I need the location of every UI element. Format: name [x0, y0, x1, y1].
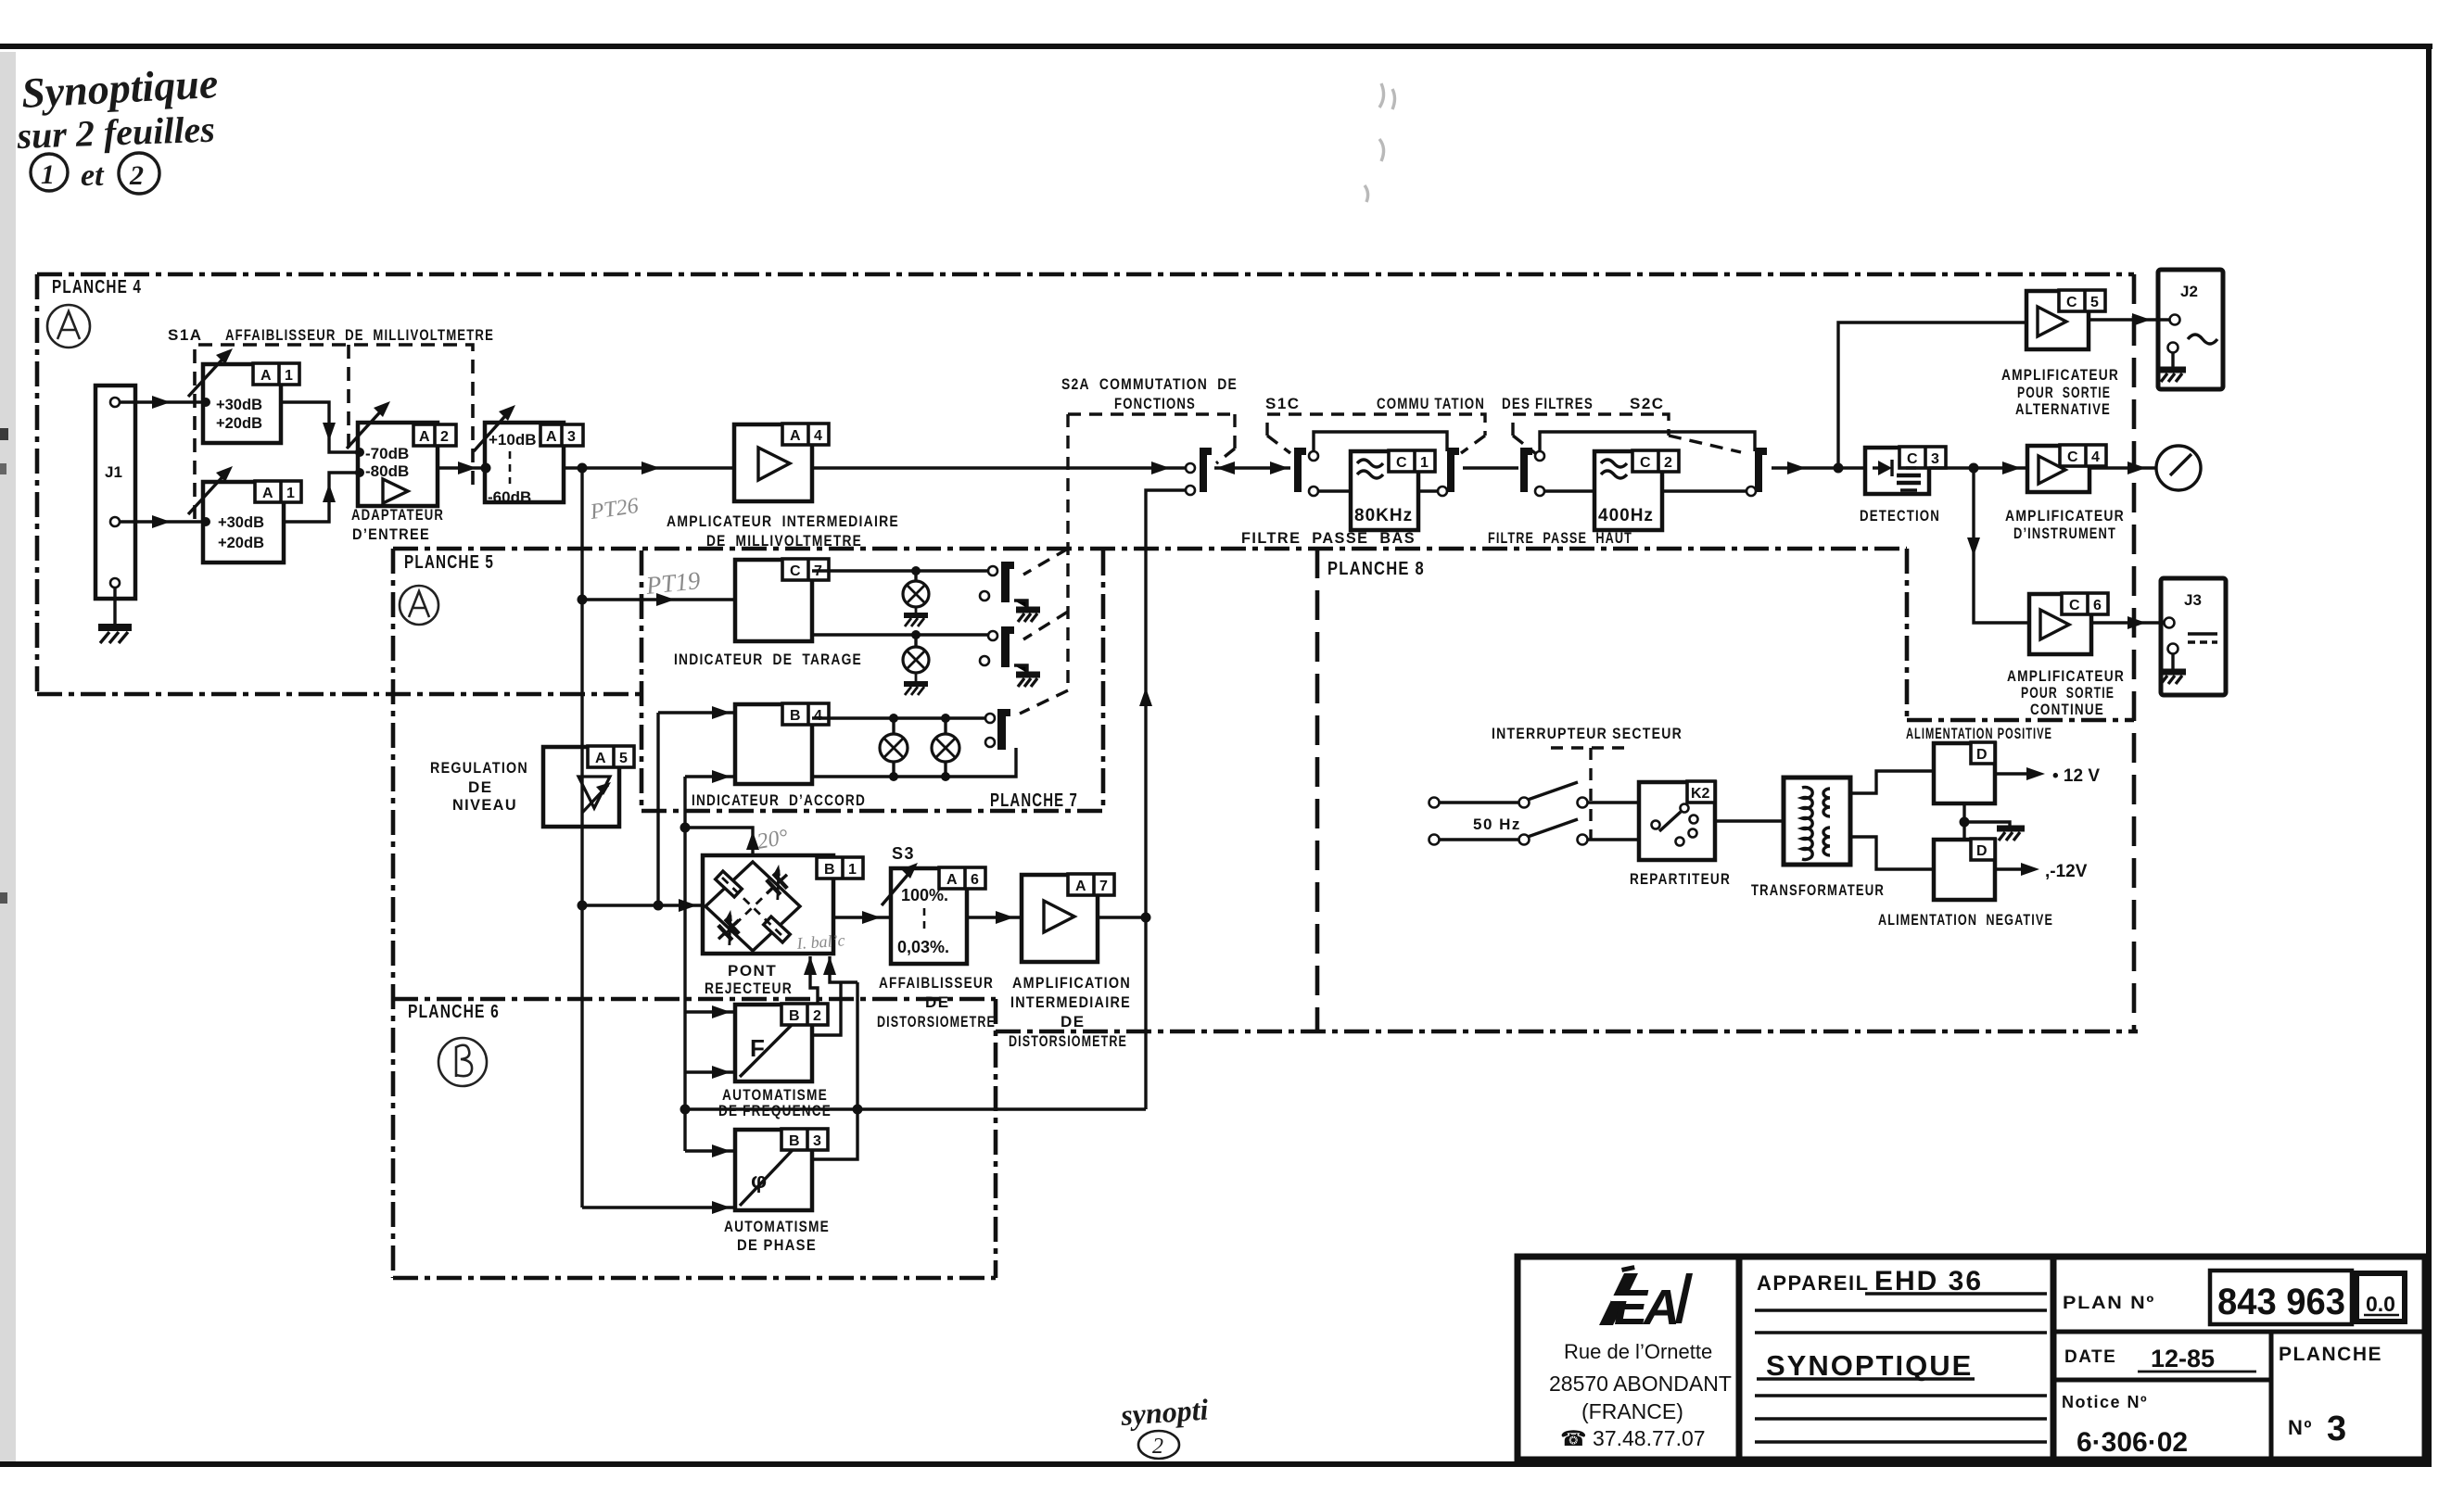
svg-text:+20dB: +20dB [218, 535, 264, 551]
svg-text:• 12 V: • 12 V [2052, 766, 2100, 786]
svg-text:A: A [790, 428, 801, 444]
B1 output wire to A6 [833, 916, 891, 918]
svg-text:100%.: 100%. [901, 886, 948, 904]
distribution bus wire x636 [580, 468, 583, 1208]
svg-text:AMPLIFICATEUR: AMPLIFICATEUR [2005, 507, 2125, 525]
K2 label [1687, 781, 1715, 803]
svg-text:+10dB: +10dB [489, 431, 537, 449]
svg-text:DISTORSIOMETRE: DISTORSIOMETRE [1009, 1032, 1127, 1050]
A6 label [939, 867, 985, 889]
svg-text:+30dB: +30dB [218, 514, 264, 531]
svg-text:28570 ABONDANT: 28570 ABONDANT [1549, 1372, 1732, 1396]
svg-text:C: C [2067, 449, 2078, 465]
S2A dashed frame [1020, 414, 1235, 714]
planche 4 left boundary [35, 274, 40, 694]
wire S2A to S1C (both arrows) [1214, 466, 1290, 469]
B2 F symbol [740, 1009, 807, 1077]
B1 bridge diamond [705, 862, 800, 951]
svg-text:PLAN Nº: PLAN Nº [2063, 1294, 2155, 1313]
svg-text:1: 1 [286, 486, 295, 501]
B4 output wire top [812, 716, 985, 719]
svg-text:S2A COMMUTATION DE: S2A COMMUTATION DE [1061, 375, 1238, 393]
A2 amplifier triangle [383, 479, 408, 503]
svg-text:J2: J2 [2180, 283, 2198, 300]
B4 input wire lower [685, 775, 735, 778]
svg-text:CONTINUE: CONTINUE [2030, 701, 2104, 718]
J2 sine symbol [2188, 335, 2217, 344]
svg-text:+30dB: +30dB [216, 397, 262, 413]
svg-text:+20dB: +20dB [216, 415, 262, 432]
svg-text:3: 3 [813, 1133, 821, 1149]
svg-text:A: A [260, 368, 272, 384]
svg-text:D: D [1976, 843, 1988, 859]
A1 lower label [255, 481, 301, 502]
bottom border line [0, 1461, 2432, 1467]
faint pencil marks top center [1365, 83, 1395, 202]
svg-text:AFFAIBLISSEUR DE MILLIVOLTME: AFFAIBLISSEUR DE MILLIVOLTMETRE [225, 326, 494, 344]
A4 label [782, 424, 829, 445]
planche 5 circled A mark [400, 586, 438, 625]
svg-text:-70dB: -70dB [365, 445, 409, 462]
svg-text:SYNOPTIQUE: SYNOPTIQUE [1766, 1349, 1973, 1382]
svg-text:et: et [81, 158, 105, 193]
svg-text:1: 1 [41, 159, 55, 190]
svg-text:2: 2 [1152, 1435, 1163, 1459]
A2 label [413, 424, 456, 446]
J1 ground [98, 588, 132, 643]
svg-text:☎ 37.48.77.07: ☎ 37.48.77.07 [1560, 1426, 1706, 1450]
svg-text:80KHz: 80KHz [1354, 506, 1413, 525]
svg-text:C: C [1640, 455, 1651, 471]
svg-text:AUTOMATISME: AUTOMATISME [724, 1218, 830, 1235]
instrument amplifier C4 [2027, 446, 2089, 492]
svg-text:AMPLICATEUR INTERMEDIAIRE: AMPLICATEUR INTERMEDIAIRE [667, 512, 899, 530]
C2 wave symbol [1601, 460, 1627, 478]
switch S2C left [1520, 448, 1532, 492]
planche 4 bottom-right boundary y777 [1907, 718, 2134, 723]
wire C4 to meter [2089, 466, 2155, 469]
planche 4 bottom-left boundary [37, 692, 641, 697]
transformer secondary coils [1823, 789, 1830, 855]
svg-text:INTERMEDIAIRE: INTERMEDIAIRE [1010, 993, 1131, 1011]
positive regulator D [1934, 743, 1995, 803]
svg-text:5: 5 [619, 751, 628, 766]
connector J3 [2161, 578, 2226, 695]
planche 6 circled B mark [438, 1038, 487, 1086]
wire A7 to return bus [1098, 916, 1146, 918]
B4 output wire bottom [812, 748, 1016, 777]
smudge mark left edge 2 [0, 892, 7, 904]
switch S2A pole b [988, 566, 997, 575]
svg-text:AMPLIFICATEUR: AMPLIFICATEUR [2007, 667, 2125, 685]
svg-text:S2C: S2C [1630, 395, 1665, 412]
switch b ground [1014, 601, 1040, 622]
connector J2 [2158, 270, 2223, 389]
main wire filters to detection [1772, 466, 1865, 469]
J2 ground [2160, 352, 2186, 382]
title block frame [1518, 1257, 2425, 1460]
svg-text:B: B [789, 1133, 800, 1149]
S1A dashed selector box [195, 345, 473, 519]
svg-text:2: 2 [440, 429, 449, 445]
svg-text:Rue de l’Ornette: Rue de l’Ornette [1564, 1340, 1712, 1363]
attenuator block A6 [891, 868, 967, 964]
appareil rule lines [1755, 1294, 2047, 1333]
automatism feed bus x739 [683, 777, 686, 1151]
wire to C7 [582, 598, 735, 601]
DC output amplifier C6 [2029, 594, 2091, 654]
wire A1 upper to A2 [281, 402, 358, 452]
svg-text:1: 1 [1420, 455, 1429, 471]
svg-text:DATE: DATE [2064, 1347, 2116, 1367]
plan number sub box [2356, 1273, 2405, 1321]
svg-text:EHD 36: EHD 36 [1874, 1266, 1983, 1296]
svg-text:TRANSFORMATEUR: TRANSFORMATEUR [1751, 881, 1885, 899]
right border line [2426, 44, 2432, 1466]
input adapter A2 [358, 423, 438, 506]
svg-text:NIVEAU: NIVEAU [452, 796, 517, 814]
wire transformer to D+ [1850, 771, 1934, 793]
smudge mark left edge 3 [0, 463, 6, 474]
svg-text:3: 3 [1931, 451, 1939, 467]
planche 7 bottom boundary [641, 809, 1103, 814]
svg-text:F: F [750, 1034, 765, 1062]
B3 label [781, 1129, 828, 1150]
node at A1 lower input [201, 517, 210, 526]
frequency return wire y1197 [685, 1107, 1146, 1110]
svg-text:Nº: Nº [2288, 1416, 2313, 1439]
svg-text:1: 1 [848, 862, 857, 878]
svg-text:AMPLIFICATEUR: AMPLIFICATEUR [2001, 366, 2119, 384]
svg-text:6·306·02: 6·306·02 [2077, 1427, 2188, 1458]
svg-text:DISTORSIOMETRE: DISTORSIOMETRE [877, 1013, 996, 1030]
svg-text:ADAPTATEUR: ADAPTATEUR [351, 506, 444, 524]
accord lamp 2 [944, 718, 946, 777]
C3 diode [1873, 466, 1878, 469]
svg-text:REGULATION: REGULATION [430, 759, 528, 777]
J3 ground [2160, 653, 2186, 684]
B3 input wires [685, 1149, 735, 1152]
A3 variability arrow [474, 409, 512, 451]
svg-text:POUR SORTIE: POUR SORTIE [2021, 684, 2115, 702]
svg-text:ALIMENTATION POSITIVE: ALIMENTATION POSITIVE [1906, 725, 2052, 742]
svg-text:PONT: PONT [728, 962, 777, 980]
svg-text:B: B [824, 862, 835, 878]
title block inner dividers [2053, 1332, 2425, 1460]
planche 6 top boundary [393, 997, 996, 1002]
svg-text:J1: J1 [105, 463, 122, 481]
svg-text:4: 4 [814, 428, 822, 444]
svg-text:D’INSTRUMENT: D’INSTRUMENT [2013, 525, 2116, 542]
planche 4 bottom notch vertical at x2057 [1905, 549, 1910, 720]
J3 DC symbol [2188, 632, 2217, 635]
attenuator A1 (lower) [203, 482, 284, 563]
lamp 1 ground [904, 607, 928, 626]
A4 amplifier triangle [758, 448, 790, 480]
wire A2 to A3 [438, 466, 485, 469]
planche 7 left boundary [640, 550, 644, 811]
bridge resistor top-left [716, 871, 743, 897]
C1 wave symbol [1357, 460, 1383, 478]
switch c ground [1014, 665, 1040, 687]
wire C3 to C4 [1929, 466, 2027, 469]
planche 5 and 6 left boundary [391, 549, 396, 1278]
node at C7 branch [578, 595, 588, 605]
attenuator A1 (upper) [203, 364, 281, 443]
svg-text:COMMU TATION: COMMU TATION [1377, 395, 1485, 412]
distorsiometre return wire up to S2A [1146, 490, 1186, 1109]
J1 pin 1 [110, 398, 120, 407]
svg-text:A: A [595, 751, 606, 766]
wire K2 to transformer [1715, 819, 1784, 822]
automatism output bus x925 [812, 982, 857, 1159]
svg-text:ALTERNATIVE: ALTERNATIVE [2015, 400, 2111, 418]
svg-text:POUR SORTIE: POUR SORTIE [2017, 384, 2111, 401]
top border line [0, 44, 2432, 49]
wire A1 lower to A2 [284, 473, 358, 522]
svg-text:PLANCHE 5: PLANCHE 5 [404, 552, 494, 573]
svg-text:7: 7 [1099, 879, 1108, 894]
svg-text:B: B [789, 1008, 800, 1024]
svg-text:DE MILLIVOLTMETRE: DE MILLIVOLTMETRE [706, 532, 862, 550]
svg-text:C: C [790, 563, 801, 579]
svg-text:A: A [546, 429, 557, 445]
B2 label [781, 1004, 828, 1025]
C7 label [782, 559, 829, 580]
C7 output wire 2 [812, 633, 988, 636]
svg-text:I. bal’c: I. bal’c [795, 930, 845, 953]
mains switch pole 1 [1440, 801, 1518, 803]
svg-text:4: 4 [2091, 449, 2100, 465]
wire C5 to J2 [2089, 318, 2170, 321]
svg-text:REJECTEUR: REJECTEUR [705, 980, 793, 997]
wire between filter pairs [1463, 466, 1518, 469]
B1 bottom control arrows [810, 956, 818, 1005]
svg-text:AFFAIBLISSEUR: AFFAIBLISSEUR [879, 974, 994, 992]
wire J1 pin2 to A1 [120, 520, 203, 523]
svg-text:APPAREIL :: APPAREIL : [1757, 1271, 1885, 1295]
400Hz bypass wire [1540, 432, 1755, 451]
svg-text:φ: φ [751, 1169, 767, 1194]
accord lamp 1 [892, 718, 895, 777]
wire transformer to D- [1850, 837, 1934, 869]
node at A2 input upper [355, 448, 364, 457]
svg-text:K2: K2 [1691, 786, 1710, 802]
svg-text:,-12V: ,-12V [2045, 862, 2088, 881]
svg-text:DE: DE [925, 993, 950, 1011]
A5 label [588, 746, 634, 767]
svg-text:INDICATEUR DE TARAGE: INDICATEUR DE TARAGE [674, 651, 862, 668]
svg-text:0,03%.: 0,03%. [897, 938, 949, 956]
B4 label [782, 703, 829, 725]
bridge dashed diagonals [722, 878, 783, 937]
svg-text:FILTRE PASSE BAS: FILTRE PASSE BAS [1241, 529, 1416, 547]
link between regulators with ground [1962, 803, 1965, 840]
svg-text:D’ENTREE: D’ENTREE [352, 525, 430, 543]
svg-text:PLANCHE: PLANCHE [2279, 1344, 2382, 1365]
svg-text:400Hz: 400Hz [1598, 506, 1654, 525]
svg-text:5: 5 [2090, 295, 2099, 310]
A7 label [1068, 874, 1114, 895]
C7 output wire 1 [812, 569, 988, 572]
planche 6 bottom boundary [393, 1276, 996, 1281]
regulation block A5 [543, 747, 619, 827]
svg-text:DES FILTRES: DES FILTRES [1502, 395, 1594, 412]
svg-text:S1C: S1C [1265, 395, 1301, 412]
svg-text:2: 2 [1664, 455, 1672, 471]
svg-text:PLANCHE 7: PLANCHE 7 [990, 790, 1078, 811]
svg-text:S3: S3 [892, 844, 915, 863]
S1C dashed frame [1267, 414, 1485, 453]
frequency automatism B2 [735, 1005, 812, 1081]
A2 variability arrow [347, 405, 387, 449]
svg-text:3: 3 [2327, 1410, 2346, 1448]
distributor block K2 [1639, 782, 1715, 860]
B2 input wires [685, 1010, 735, 1013]
svg-text:D: D [1976, 747, 1988, 763]
lamp 2 [914, 635, 917, 647]
connector J1 [95, 386, 135, 599]
J1 pin 2 [110, 517, 120, 526]
branch down to C6 [1974, 468, 2029, 623]
lamp 1 [914, 571, 917, 581]
switch S1C right [1447, 448, 1459, 492]
handwritten note: 1 et 2 circled [31, 153, 159, 194]
wire A6 to A7 [967, 916, 1022, 918]
detection block C3 [1865, 448, 1929, 494]
svg-text:PT19: PT19 [643, 566, 702, 600]
B1 label [817, 857, 863, 879]
svg-text:6: 6 [2093, 598, 2102, 613]
indicator block C7 [735, 560, 812, 641]
B4 input vertical x710 [656, 713, 659, 905]
svg-text:PLANCHE 8: PLANCHE 8 [1327, 559, 1425, 579]
svg-text:A: A [262, 486, 273, 501]
svg-text:ALIMENTATION NEGATIVE: ALIMENTATION NEGATIVE [1878, 911, 2053, 929]
svg-text:6: 6 [971, 872, 979, 888]
svg-text:FONCTIONS: FONCTIONS [1114, 395, 1196, 412]
phase automatism B3 [735, 1130, 812, 1210]
svg-text:REPARTITEUR: REPARTITEUR [1630, 870, 1731, 888]
svg-text:PLANCHE 4: PLANCHE 4 [52, 277, 142, 297]
bridge capacitor bottom-left [709, 910, 747, 948]
transformer block [1784, 778, 1850, 865]
J1 pin 3 [110, 578, 120, 588]
svg-text:(FRANCE): (FRANCE) [1581, 1399, 1683, 1423]
S3 variability arrow [882, 867, 914, 905]
left scanner grey strip [0, 52, 16, 1461]
mains switch pole 2 [1440, 838, 1518, 841]
node at B1 branch [578, 901, 588, 911]
meter [2156, 446, 2201, 490]
bridge capacitor top-right [757, 865, 795, 903]
mains switch link dashed [1551, 748, 1632, 840]
svg-text:DE PHASE: DE PHASE [737, 1236, 817, 1254]
intermediate amplifier A4 [734, 424, 812, 501]
switch S1C left [1294, 448, 1306, 492]
A3 label [540, 424, 583, 446]
S2A main switch [1186, 463, 1195, 473]
planche 7 right boundary [1101, 550, 1106, 811]
planche 5 / planche 8 top long boundary [393, 547, 1907, 551]
svg-text:DE: DE [1061, 1013, 1086, 1030]
A1 lower variability arrow [188, 470, 229, 514]
svg-text:C: C [2066, 295, 2077, 310]
switch S2C right [1755, 448, 1767, 492]
svg-text:4: 4 [814, 708, 822, 724]
svg-text:3: 3 [567, 429, 576, 445]
svg-text:C: C [1396, 455, 1407, 471]
svg-text:DE: DE [468, 778, 493, 796]
switch S2A pole d [985, 714, 995, 723]
svg-text:B: B [790, 708, 801, 724]
svg-text:INTERRUPTEUR SECTEUR: INTERRUPTEUR SECTEUR [1492, 725, 1683, 742]
svg-text:Notice Nº: Notice Nº [2062, 1393, 2148, 1411]
node at A2 input lower [355, 468, 364, 477]
planche 4 right boundary (long dash) [2132, 274, 2137, 1031]
C3 capacitor [1897, 468, 1921, 490]
node at A1 upper input [201, 398, 210, 407]
planche 4 top boundary [37, 272, 2134, 277]
svg-text:1: 1 [285, 368, 293, 384]
B1 top output loop to bus x739 [685, 828, 753, 855]
svg-text:synopti: synopti [1119, 1392, 1210, 1432]
svg-text:0.0: 0.0 [2366, 1292, 2395, 1316]
negative regulator D [1934, 840, 1995, 900]
smudge mark left edge [0, 428, 8, 440]
svg-text:843 963: 843 963 [2217, 1282, 2345, 1322]
S2C dashed frame [1513, 414, 1741, 453]
lamp 2 ground [904, 673, 928, 695]
B2 side wire [812, 982, 841, 1035]
planche 8 bottom boundary [996, 1030, 2138, 1034]
low pass filter C1 [1351, 451, 1418, 530]
A1 upper variability arrow [188, 352, 229, 397]
svg-text:INDICATEUR D’ACCORD: INDICATEUR D’ACCORD [692, 791, 866, 809]
svg-text:12-85: 12-85 [2151, 1345, 2215, 1372]
svg-text:FILTRE PASSE HAUT: FILTRE PASSE HAUT [1488, 529, 1632, 547]
C1 wires [1318, 489, 1439, 492]
svg-text:-60dB: -60dB [488, 488, 531, 506]
B4 input wire upper [658, 711, 735, 714]
svg-text:S1A: S1A [168, 326, 203, 344]
main wire A4 to S2A switch [812, 466, 1186, 469]
company logo LEA [1599, 1265, 1693, 1335]
svg-text:2: 2 [129, 160, 144, 191]
svg-text:C: C [1907, 451, 1918, 467]
mains input terminals [1429, 798, 1440, 808]
transformer primary coil [1802, 787, 1812, 859]
wire C6 to J3 [2091, 621, 2165, 624]
svg-text:-80dB: -80dB [365, 462, 409, 480]
wire J1 pin1 to A1 [120, 400, 203, 403]
svg-text:C: C [2069, 598, 2080, 613]
K2 selector contacts [1652, 804, 1698, 846]
intermediate amplifier A7 [1022, 875, 1098, 962]
svg-text:A: A [419, 429, 430, 445]
B3 phi symbol [740, 1134, 807, 1206]
AC output amplifier C5 [2026, 291, 2089, 349]
plan number box [2210, 1271, 2352, 1324]
wire up to C5 [1838, 322, 2026, 468]
planche 4 circled A mark [47, 305, 90, 348]
bridge resistor bottom-right [764, 917, 791, 942]
C2 wires [1544, 489, 1746, 492]
-12V output [1995, 867, 2026, 870]
wire bus to B1 [582, 904, 703, 906]
A1 upper label [253, 363, 299, 385]
attenuator A3 [485, 423, 564, 502]
